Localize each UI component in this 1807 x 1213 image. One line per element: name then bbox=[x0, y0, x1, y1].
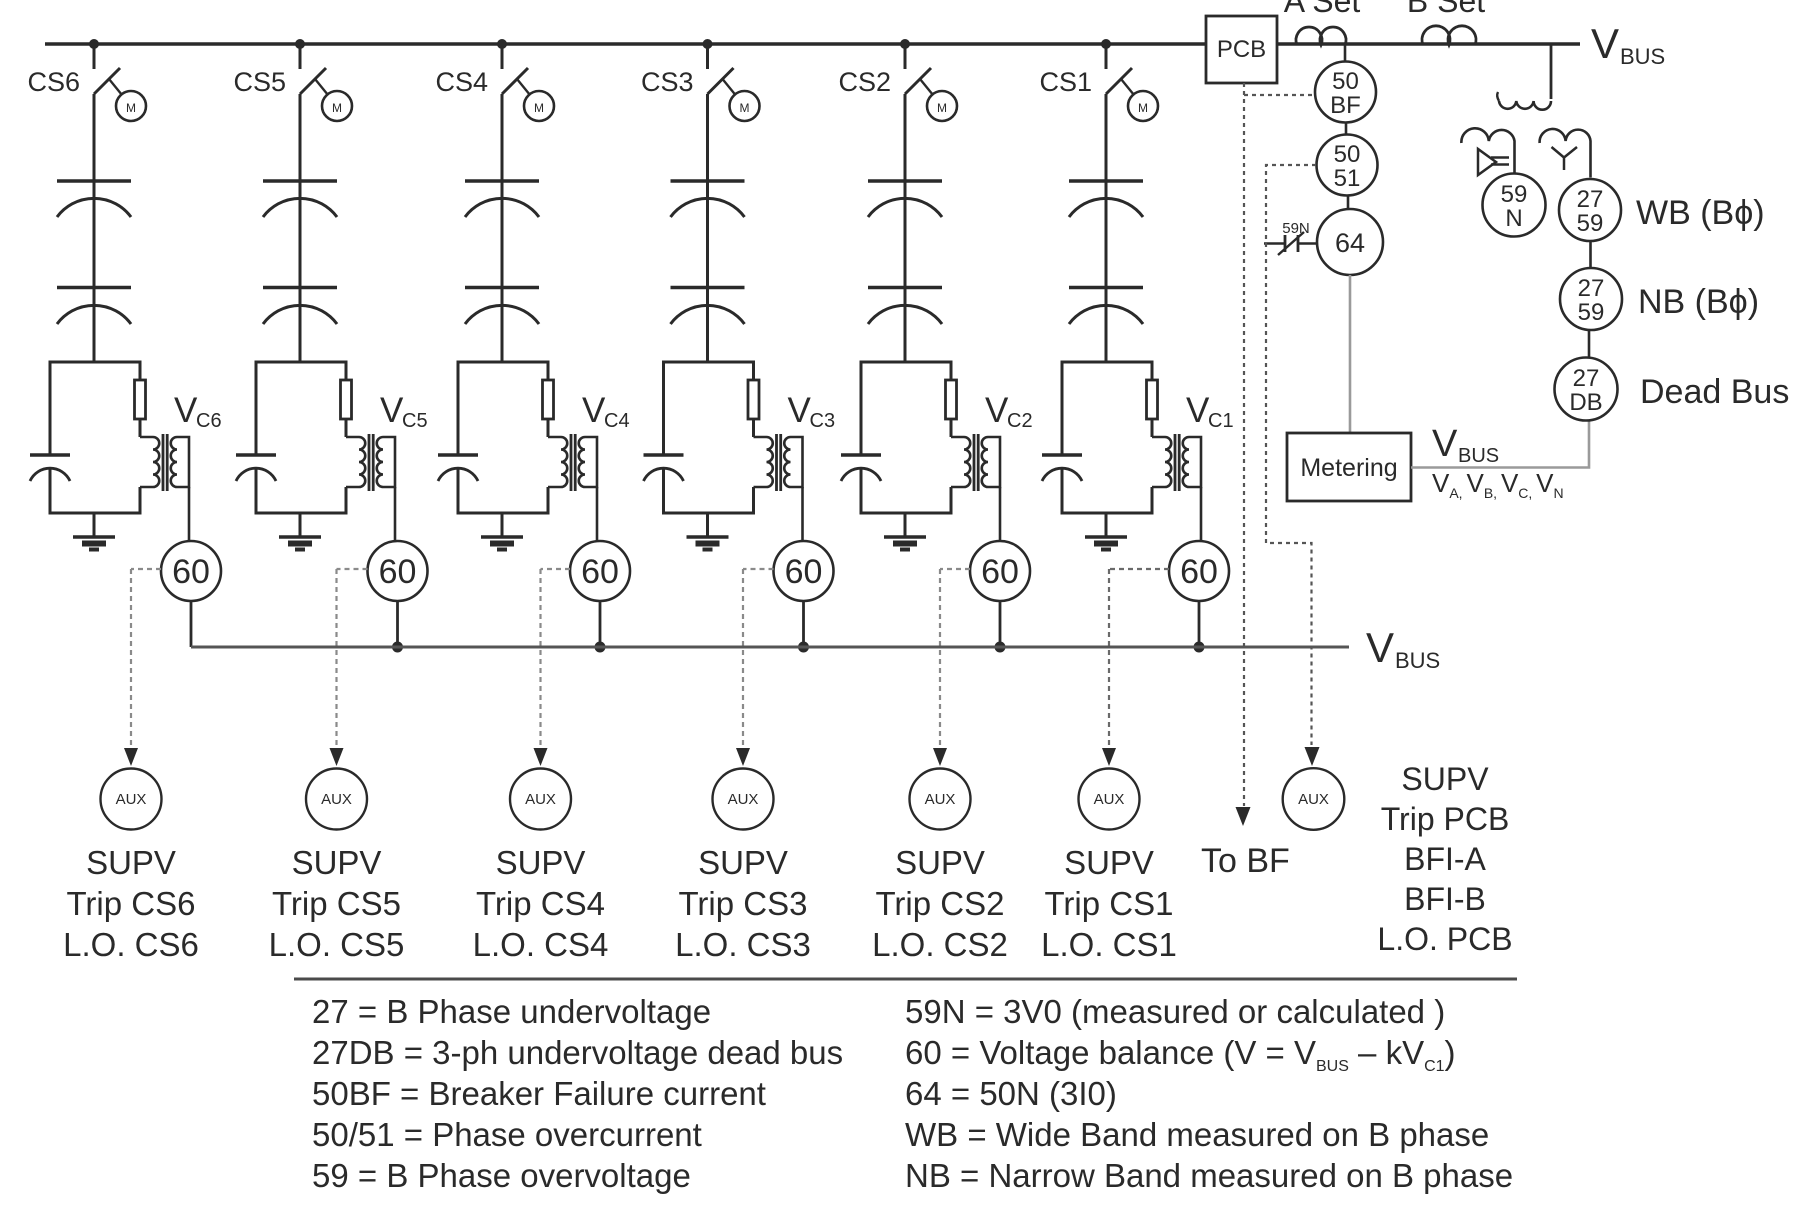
svg-text:C1: C1 bbox=[1208, 410, 1234, 432]
wire CS4 riser bbox=[501, 94, 504, 181]
relay 64 bbox=[1317, 209, 1383, 275]
resistor CS6 discharge bbox=[135, 380, 146, 419]
label V_C6 bbox=[174, 391, 222, 432]
svg-text:Metering: Metering bbox=[1300, 454, 1397, 482]
svg-text:L.O. CS4: L.O. CS4 bbox=[473, 926, 609, 963]
relay 60 CS6 bbox=[161, 541, 221, 601]
motor operator M of CS6 bbox=[109, 79, 146, 121]
capacitor bank frame CS4 bbox=[458, 362, 548, 513]
svg-text:60 = Voltage balance (V = VBUS: 60 = Voltage balance (V = VBUS – kVC1) bbox=[905, 1034, 1456, 1075]
svg-text:L.O. CS5: L.O. CS5 bbox=[269, 926, 405, 963]
wire VT secondary to relay 60 CS2 bbox=[999, 487, 1002, 541]
resistor CS1 discharge bbox=[1147, 380, 1158, 419]
ground CS3 bbox=[687, 513, 729, 550]
relay 27/59 WB bbox=[1559, 179, 1621, 241]
wire relay 60 CS4 to lower bus bbox=[599, 601, 602, 647]
svg-text:Trip PCB: Trip PCB bbox=[1381, 801, 1510, 837]
svg-text:C5: C5 bbox=[402, 410, 428, 432]
wire bus to PT primary bbox=[1550, 44, 1553, 99]
transformer VT CS4 primary winding bbox=[548, 437, 567, 487]
svg-text:AUX: AUX bbox=[925, 791, 956, 808]
node CS4 lower bus junction bbox=[595, 642, 606, 653]
label V_C4 bbox=[582, 391, 630, 432]
wire CS3 riser bbox=[706, 94, 709, 181]
svg-text:60: 60 bbox=[785, 553, 823, 591]
relay 50BF bbox=[1315, 62, 1376, 123]
svg-text:27 = B Phase undervoltage: 27 = B Phase undervoltage bbox=[312, 993, 711, 1030]
label SUPV Trip CS1 bbox=[1041, 844, 1177, 963]
aux relay AUX CS2 bbox=[910, 769, 971, 830]
circuit switcher CS6 blade bbox=[94, 44, 120, 94]
svg-text:SUPV: SUPV bbox=[1064, 844, 1154, 881]
wire lower bus VBUS bbox=[191, 646, 1349, 649]
ground CS2 bbox=[884, 513, 926, 550]
transformer VT CS1 secondary winding bbox=[1183, 437, 1201, 487]
svg-text:59: 59 bbox=[1578, 299, 1605, 326]
relay 60 CS2 bbox=[970, 541, 1030, 601]
svg-text:AUX: AUX bbox=[321, 791, 352, 808]
svg-text:M: M bbox=[1138, 101, 1148, 115]
svg-text:27DB = 3-ph undervoltage dead: 27DB = 3-ph undervoltage dead bus bbox=[312, 1034, 843, 1071]
svg-text:L.O. CS6: L.O. CS6 bbox=[63, 926, 199, 963]
svg-text:AUX: AUX bbox=[728, 791, 759, 808]
dashed trip wire relay 60 CS3 to AUX bbox=[736, 569, 774, 766]
svg-text:V: V bbox=[788, 391, 812, 430]
label SUPV Trip CS4 bbox=[473, 844, 609, 963]
dashed trip wire relay 60 CS1 to AUX bbox=[1102, 569, 1169, 766]
label V_C2 bbox=[985, 391, 1033, 432]
wire relay 60 CS5 to lower bus bbox=[396, 601, 399, 647]
wire VT secondary to relay 60 CS5 bbox=[394, 487, 397, 541]
svg-text:50: 50 bbox=[1332, 68, 1359, 95]
resistor CS4 discharge bbox=[543, 380, 554, 419]
svg-text:SUPV: SUPV bbox=[698, 844, 788, 881]
motor operator M of CS5 bbox=[315, 79, 352, 121]
node CS3 lower bus junction bbox=[798, 642, 809, 653]
svg-text:Trip CS6: Trip CS6 bbox=[67, 885, 196, 922]
svg-text:WB = Wide Band measured on B p: WB = Wide Band measured on B phase bbox=[905, 1116, 1489, 1153]
node CS1 bus junction bbox=[1101, 39, 1111, 49]
wire relay 60 CS6 to lower bus bbox=[190, 601, 193, 647]
wire CS1 riser bbox=[1105, 94, 1108, 181]
wire top bus VBUS bbox=[45, 42, 1580, 45]
svg-text:Trip CS1: Trip CS1 bbox=[1045, 885, 1174, 922]
svg-text:BFI-A: BFI-A bbox=[1404, 841, 1486, 877]
wire CS6 riser bbox=[93, 94, 96, 181]
resistor CS2 discharge bbox=[946, 380, 957, 419]
capacitor CS6 low-voltage tap bbox=[30, 455, 70, 481]
CT A Set bbox=[1296, 27, 1346, 45]
svg-text:AUX: AUX bbox=[1094, 791, 1125, 808]
capacitor CS2 unit 2 bbox=[868, 288, 942, 363]
label CS2 bbox=[838, 67, 891, 97]
aux relay AUX CS5 bbox=[306, 769, 367, 830]
capacitor CS4 unit 1 bbox=[465, 181, 539, 287]
svg-text:To BF: To BF bbox=[1201, 842, 1290, 880]
svg-text:L.O. CS3: L.O. CS3 bbox=[675, 926, 811, 963]
transformer VT CS2 secondary winding bbox=[982, 437, 1000, 487]
relay 50/51 bbox=[1317, 135, 1378, 196]
label CS1 bbox=[1039, 67, 1092, 97]
svg-text:C3: C3 bbox=[810, 410, 836, 432]
transformer VT CS5 primary winding bbox=[346, 437, 365, 487]
transformer VT CS3 primary winding bbox=[754, 437, 773, 487]
label SUPV Trip PCB block bbox=[1377, 761, 1512, 957]
transformer VT CS2 core bbox=[973, 434, 980, 491]
capacitor CS2 unit 1 bbox=[868, 181, 942, 287]
wire relay 60 CS1 to lower bus bbox=[1198, 601, 1201, 647]
capacitor CS1 low-voltage tap bbox=[1042, 455, 1082, 481]
svg-text:59: 59 bbox=[1577, 210, 1604, 237]
wire CS2 riser bbox=[904, 94, 907, 181]
svg-text:Trip CS4: Trip CS4 bbox=[476, 885, 605, 922]
label V_C3 bbox=[788, 391, 836, 432]
wire WB to NB bbox=[1589, 241, 1592, 268]
transformer VT CS5 core bbox=[368, 434, 375, 491]
svg-text:27: 27 bbox=[1578, 275, 1605, 302]
transformer VT CS2 primary winding bbox=[951, 437, 970, 487]
svg-text:59N: 59N bbox=[1282, 220, 1310, 237]
svg-text:V: V bbox=[582, 391, 606, 430]
svg-text:59 = B Phase overvoltage: 59 = B Phase overvoltage bbox=[312, 1157, 691, 1194]
capacitor bank frame CS1 bbox=[1062, 362, 1152, 513]
svg-text:50/51 = Phase overcurrent: 50/51 = Phase overcurrent bbox=[312, 1116, 702, 1153]
aux relay AUX CS1 bbox=[1079, 769, 1140, 830]
svg-text:60: 60 bbox=[581, 553, 619, 591]
label SUPV Trip CS2 bbox=[872, 844, 1008, 963]
capacitor CS5 low-voltage tap bbox=[236, 455, 276, 481]
svg-text:SUPV: SUPV bbox=[86, 844, 176, 881]
svg-text:Trip CS5: Trip CS5 bbox=[272, 885, 401, 922]
wire CT A to relay 50BF bbox=[1344, 44, 1347, 61]
wire VT secondary to relay 60 CS4 bbox=[596, 487, 599, 541]
label SUPV Trip CS6 bbox=[63, 844, 199, 963]
svg-text:WB (Bϕ): WB (Bϕ) bbox=[1636, 194, 1765, 232]
svg-text:60: 60 bbox=[172, 553, 210, 591]
dashed trip wire relay 60 CS2 to AUX bbox=[933, 569, 970, 766]
label B Set bbox=[1407, 0, 1485, 19]
label VBUS at metering bbox=[1432, 423, 1499, 467]
wire relay 64 to Metering bbox=[1349, 275, 1352, 433]
ground CS5 bbox=[279, 513, 321, 550]
transformer VT CS4 core bbox=[570, 434, 577, 491]
capacitor CS6 unit 1 bbox=[57, 181, 131, 287]
svg-text:BF: BF bbox=[1330, 92, 1361, 119]
node CS4 bus junction bbox=[497, 39, 507, 49]
wire CS5 riser bbox=[299, 94, 302, 181]
relay 59N bbox=[1483, 174, 1546, 237]
aux relay AUX CS4 bbox=[510, 769, 571, 830]
motor operator M of CS1 bbox=[1121, 79, 1158, 121]
wire Metering to 27DB bbox=[1411, 421, 1589, 468]
PT primary winding bbox=[1497, 92, 1551, 110]
svg-text:DB: DB bbox=[1569, 389, 1602, 416]
motor operator M of CS4 bbox=[517, 79, 554, 121]
circuit switcher CS1 blade bbox=[1106, 44, 1132, 94]
svg-text:L.O. CS1: L.O. CS1 bbox=[1041, 926, 1177, 963]
label V_C1 bbox=[1186, 391, 1234, 432]
wire VT secondary to relay 60 CS6 bbox=[188, 487, 191, 541]
svg-text:C2: C2 bbox=[1007, 410, 1033, 432]
label WB Bphase bbox=[1636, 194, 1765, 232]
svg-text:BFI-B: BFI-B bbox=[1404, 881, 1486, 917]
wire 50/51 to 64 bbox=[1347, 196, 1350, 210]
wire NB to 27DB bbox=[1588, 330, 1591, 358]
wye winding symbol bbox=[1552, 147, 1578, 170]
motor operator M of CS2 bbox=[920, 79, 957, 121]
dashed trip wire relay 60 CS6 to AUX bbox=[124, 569, 161, 766]
ground CS4 bbox=[481, 513, 523, 550]
label CS4 bbox=[435, 67, 488, 97]
svg-text:59N = 3V0 (measured or calcula: 59N = 3V0 (measured or calculated ) bbox=[905, 993, 1445, 1030]
dashed trip wire relay 60 CS5 to AUX bbox=[330, 569, 368, 766]
circuit switcher CS3 blade bbox=[708, 44, 734, 94]
label VA VB VC VN bbox=[1432, 468, 1564, 501]
transformer VT CS3 secondary winding bbox=[784, 437, 802, 487]
svg-text:C6: C6 bbox=[196, 410, 222, 432]
svg-text:C4: C4 bbox=[604, 410, 630, 432]
legend right column bbox=[905, 993, 1513, 1194]
svg-text:NB (Bϕ): NB (Bϕ) bbox=[1638, 283, 1759, 321]
circuit switcher CS2 blade bbox=[905, 44, 931, 94]
svg-text:M: M bbox=[126, 101, 136, 115]
node CS1 lower bus junction bbox=[1194, 642, 1205, 653]
svg-text:V: V bbox=[380, 391, 404, 430]
svg-text:L.O. PCB: L.O. PCB bbox=[1377, 921, 1512, 957]
PT secondary winding delta side bbox=[1461, 128, 1514, 173]
ground CS6 bbox=[73, 513, 115, 550]
relay 60 CS3 bbox=[774, 541, 834, 601]
svg-text:M: M bbox=[534, 101, 544, 115]
relay 60 CS5 bbox=[368, 541, 428, 601]
label To BF bbox=[1201, 842, 1290, 880]
svg-text:M: M bbox=[740, 101, 750, 115]
label CS6 bbox=[27, 67, 80, 97]
svg-text:PCB: PCB bbox=[1217, 36, 1266, 63]
capacitor CS5 unit 1 bbox=[263, 181, 337, 287]
CT B Set bbox=[1422, 26, 1476, 45]
svg-text:V: V bbox=[985, 391, 1009, 430]
label NB Bphase bbox=[1638, 283, 1759, 321]
wire VT secondary to relay 60 CS1 bbox=[1200, 487, 1203, 541]
svg-text:SUPV: SUPV bbox=[1401, 761, 1489, 797]
svg-text:CS5: CS5 bbox=[233, 67, 286, 97]
dashed wire PCB to 50BF and To BF bbox=[1236, 83, 1316, 826]
relay 60 CS1 bbox=[1169, 541, 1229, 601]
capacitor CS3 unit 1 bbox=[671, 181, 745, 287]
svg-text:50: 50 bbox=[1334, 141, 1361, 168]
motor operator M of CS3 bbox=[723, 79, 760, 121]
node CS5 bus junction bbox=[295, 39, 305, 49]
svg-text:27: 27 bbox=[1573, 365, 1600, 392]
svg-text:A Set: A Set bbox=[1284, 0, 1361, 19]
transformer VT CS5 secondary winding bbox=[377, 437, 395, 487]
svg-text:AUX: AUX bbox=[1298, 791, 1329, 808]
legend divider rule bbox=[294, 978, 1517, 981]
delta winding symbol (broken delta) bbox=[1478, 149, 1509, 175]
transformer VT CS3 core bbox=[775, 434, 782, 491]
node CS6 bus junction bbox=[89, 39, 99, 49]
wire VT secondary to relay 60 CS3 bbox=[801, 487, 804, 541]
transformer VT CS1 primary winding bbox=[1152, 437, 1171, 487]
breaker PCB box bbox=[1206, 16, 1277, 83]
transformer VT CS1 core bbox=[1174, 434, 1181, 491]
svg-text:BUS: BUS bbox=[1458, 445, 1499, 467]
aux relay AUX CS6 bbox=[101, 769, 162, 830]
aux relay AUX CS3 bbox=[713, 769, 774, 830]
svg-text:AUX: AUX bbox=[116, 791, 147, 808]
capacitor bank frame CS6 bbox=[50, 362, 140, 513]
svg-text:60: 60 bbox=[1180, 553, 1218, 591]
ground CS1 bbox=[1085, 513, 1127, 550]
capacitor CS6 unit 2 bbox=[57, 288, 131, 363]
svg-text:SUPV: SUPV bbox=[292, 844, 382, 881]
svg-text:M: M bbox=[332, 101, 342, 115]
capacitor CS2 low-voltage tap bbox=[841, 455, 881, 481]
node CS5 lower bus junction bbox=[392, 642, 403, 653]
svg-text:SUPV: SUPV bbox=[895, 844, 985, 881]
capacitor bank frame CS3 bbox=[664, 362, 754, 513]
capacitor CS1 unit 2 bbox=[1069, 288, 1143, 363]
svg-text:CS6: CS6 bbox=[27, 67, 80, 97]
contact 59N bbox=[1264, 232, 1316, 255]
label VBUS lower right bbox=[1366, 624, 1440, 673]
node CS3 bus junction bbox=[703, 39, 713, 49]
svg-text:M: M bbox=[937, 101, 947, 115]
node CS2 lower bus junction bbox=[995, 642, 1006, 653]
svg-text:N: N bbox=[1505, 205, 1522, 232]
transformer VT CS6 secondary winding bbox=[171, 437, 189, 487]
resistor CS3 discharge bbox=[748, 380, 759, 419]
dashed trip wire relay 60 CS4 to AUX bbox=[534, 569, 571, 766]
label CS5 bbox=[233, 67, 286, 97]
node CS2 bus junction bbox=[900, 39, 910, 49]
svg-text:L.O. CS2: L.O. CS2 bbox=[872, 926, 1008, 963]
svg-text:V: V bbox=[174, 391, 198, 430]
svg-text:CS2: CS2 bbox=[838, 67, 891, 97]
wire relay 60 CS2 to lower bus bbox=[999, 601, 1002, 647]
label 59N contact bbox=[1282, 220, 1310, 237]
svg-text:CS3: CS3 bbox=[641, 67, 694, 97]
dashed wire 50/51 to right AUX bbox=[1266, 165, 1320, 766]
label VBUS top right bbox=[1591, 20, 1665, 69]
capacitor CS3 unit 2 bbox=[671, 288, 745, 363]
circuit switcher CS4 blade bbox=[502, 44, 528, 94]
svg-text:V: V bbox=[1432, 423, 1458, 465]
capacitor bank frame CS5 bbox=[256, 362, 346, 513]
svg-text:V: V bbox=[1591, 20, 1619, 67]
svg-text:SUPV: SUPV bbox=[496, 844, 586, 881]
svg-text:AUX: AUX bbox=[525, 791, 556, 808]
label A Set bbox=[1284, 0, 1361, 19]
transformer VT CS4 secondary winding bbox=[579, 437, 597, 487]
relay 27DB bbox=[1555, 358, 1618, 421]
svg-text:B Set: B Set bbox=[1407, 0, 1485, 19]
capacitor bank frame CS2 bbox=[861, 362, 951, 513]
svg-text:CS4: CS4 bbox=[435, 67, 488, 97]
svg-text:60: 60 bbox=[981, 553, 1019, 591]
svg-text:60: 60 bbox=[379, 553, 417, 591]
capacitor CS4 unit 2 bbox=[465, 288, 539, 363]
svg-text:59: 59 bbox=[1501, 181, 1528, 208]
label Dead Bus bbox=[1640, 373, 1789, 411]
wire 50BF to 50/51 bbox=[1345, 123, 1348, 135]
label SUPV Trip CS5 bbox=[269, 844, 405, 963]
circuit switcher CS5 blade bbox=[300, 44, 326, 94]
svg-text:BUS: BUS bbox=[1395, 648, 1440, 673]
capacitor CS5 unit 2 bbox=[263, 288, 337, 363]
transformer VT CS6 primary winding bbox=[140, 437, 159, 487]
wire relay 60 CS3 to lower bus bbox=[802, 601, 805, 647]
metering box bbox=[1287, 433, 1411, 501]
legend left column bbox=[312, 993, 843, 1194]
PT secondary winding wye side bbox=[1540, 129, 1591, 178]
svg-text:V: V bbox=[1366, 624, 1394, 671]
svg-text:Trip CS2: Trip CS2 bbox=[876, 885, 1005, 922]
resistor CS5 discharge bbox=[341, 380, 352, 419]
aux relay AUX right bbox=[1283, 768, 1345, 830]
svg-text:64 = 50N (3I0): 64 = 50N (3I0) bbox=[905, 1075, 1117, 1112]
svg-text:Dead Bus: Dead Bus bbox=[1640, 373, 1789, 411]
capacitor CS3 low-voltage tap bbox=[644, 455, 684, 481]
svg-text:NB = Narrow Band measured on B: NB = Narrow Band measured on B phase bbox=[905, 1157, 1513, 1194]
capacitor CS4 low-voltage tap bbox=[438, 455, 478, 481]
svg-text:CS1: CS1 bbox=[1039, 67, 1092, 97]
svg-text:V: V bbox=[1186, 391, 1210, 430]
svg-text:Trip CS3: Trip CS3 bbox=[679, 885, 808, 922]
capacitor CS1 unit 1 bbox=[1069, 181, 1143, 287]
label SUPV Trip CS3 bbox=[675, 844, 811, 963]
svg-text:BUS: BUS bbox=[1620, 44, 1665, 69]
label V_C5 bbox=[380, 391, 428, 432]
svg-text:50BF = Breaker Failure current: 50BF = Breaker Failure current bbox=[312, 1075, 766, 1112]
svg-text:64: 64 bbox=[1335, 228, 1365, 258]
relay 27/59 NB bbox=[1560, 268, 1622, 330]
transformer VT CS6 core bbox=[162, 434, 169, 491]
label CS3 bbox=[641, 67, 694, 97]
svg-text:51: 51 bbox=[1334, 165, 1361, 192]
relay 60 CS4 bbox=[570, 541, 630, 601]
svg-text:27: 27 bbox=[1577, 186, 1604, 213]
